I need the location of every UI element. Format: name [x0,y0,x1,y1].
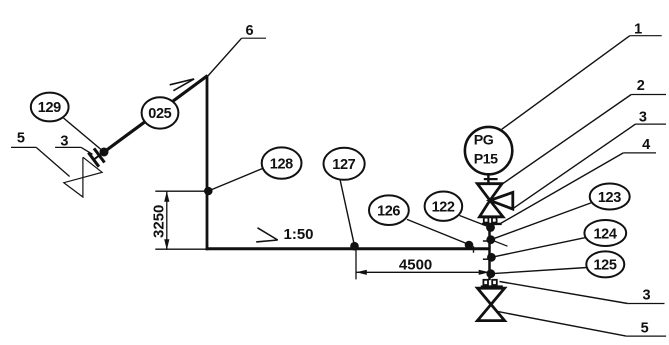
label 6 [208,23,266,76]
svg-text:2: 2 [637,78,645,94]
svg-text:126: 126 [377,203,400,219]
svg-text:6: 6 [245,23,253,39]
balloon 126 [369,195,469,244]
gauge stem [487,174,489,184]
svg-text:127: 127 [332,157,355,173]
svg-text:5: 5 [641,320,649,336]
balloon 125 [491,251,625,277]
balloon 122 [425,192,491,228]
node: meter connection dot [100,148,109,157]
svg-text:025: 025 [148,106,171,122]
svg-text:PG: PG [474,133,494,149]
label 5 (left) [11,131,70,177]
node 122 on riser2 [486,223,495,232]
slope arrow on riser [170,79,194,91]
label 2 [502,78,666,184]
svg-text:3250: 3250 [150,205,167,238]
label 3 (upper right) [513,110,666,209]
wire: sloped pipe to gas meter [104,76,208,153]
node: riser junction dot (128) [204,187,213,196]
svg-text:3: 3 [642,287,650,303]
svg-text:1:50: 1:50 [283,226,313,243]
svg-text:5: 5 [17,131,25,147]
label 5 (lower right) [498,312,666,337]
balloon 127 [324,148,365,246]
svg-text:124: 124 [594,226,617,242]
node 125 on riser2 [486,269,495,278]
valve: thin bowtie symbol (item 5 left) [64,157,102,197]
tick at node 124 [483,258,490,260]
balloon 129 [31,93,104,152]
node 124 on riser2 [487,253,496,262]
wire: main horizontal pipe [206,247,490,250]
tick right of node 126 [473,246,475,253]
balloon 123 [491,184,630,240]
balloon 128 [208,147,301,191]
dimension 4500 [356,249,490,280]
svg-text:1: 1 [634,21,642,37]
tick at node 123 [483,240,490,242]
label 4 [501,137,657,224]
valve: bottom cock (item 5) [477,288,504,320]
slope symbol 1:50 [256,228,278,242]
flange above bottom valve [481,280,503,287]
gauge PG P15 (item 1) [465,127,512,174]
label 3 (lower right) [500,282,665,304]
svg-text:122: 122 [432,199,455,215]
balloon 124 [491,220,626,257]
svg-text:4: 4 [642,137,650,153]
fitting: union bars (item 3 left) [88,145,109,167]
leader crossing at node 123 [491,240,508,247]
wire: vertical riser [206,75,209,250]
svg-text:125: 125 [594,258,617,274]
label 3 (left) [55,134,92,155]
dimension 3250 [155,191,207,250]
wire: riser 2 (vertical) [488,225,491,280]
svg-text:128: 128 [270,156,293,172]
node 127 on pipe [350,242,359,251]
node 123 on riser2 [486,235,495,244]
flange below valve [482,218,502,224]
node 126 on pipe [465,241,474,250]
valve: three-way cock below gauge [477,184,513,217]
svg-text:3: 3 [639,110,647,126]
label 1 [502,21,662,129]
svg-text:129: 129 [38,100,61,116]
svg-text:P15: P15 [474,151,498,167]
balloon 025 (on sloped pipe) [142,97,179,128]
svg-text:123: 123 [598,190,621,206]
svg-text:4500: 4500 [399,256,432,273]
